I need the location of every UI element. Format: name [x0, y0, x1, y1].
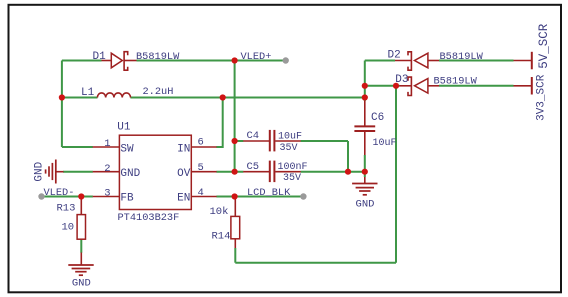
wire right vertical: [395, 86, 397, 263]
ground under R13: [68, 253, 93, 290]
svg-text:R13: R13: [57, 203, 76, 215]
wire D1 anode left segment: [62, 60, 102, 62]
port 3V3_SCR: [514, 74, 548, 121]
svg-text:B5819LW: B5819LW: [434, 75, 478, 87]
svg-text:D2: D2: [388, 50, 401, 62]
node FB junction: [78, 193, 84, 199]
diode D2: [388, 50, 484, 71]
capacitor C5: [243, 161, 307, 184]
capacitor C4: [243, 130, 302, 154]
svg-text:2: 2: [104, 163, 110, 175]
node VLED+ junction: [232, 57, 238, 63]
svg-text:3: 3: [104, 188, 110, 200]
pin 2 GND: [93, 163, 141, 180]
node LCD_BLK open end: [300, 193, 306, 199]
wire left vertical: [61, 61, 63, 148]
wire D2 row left: [365, 60, 395, 62]
node D3 row right junction: [393, 83, 399, 89]
resistor R14: [210, 197, 240, 249]
svg-text:VLED+: VLED+: [241, 51, 272, 63]
inductor L1: [81, 86, 173, 99]
svg-text:L1: L1: [81, 87, 95, 99]
pin 3 FB: [93, 188, 134, 205]
wire pin6 IN vertical: [216, 98, 222, 148]
svg-text:100nF: 100nF: [278, 162, 308, 173]
wire R13 lower: [80, 239, 82, 253]
svg-text:C4: C4: [247, 130, 260, 142]
svg-text:GND: GND: [120, 168, 140, 180]
node EN junction: [232, 193, 238, 199]
net label LCD_BLK: [247, 187, 291, 199]
port 5V_SCR: [514, 23, 552, 69]
pin 5 OV: [177, 162, 217, 180]
ground left rotated: [33, 160, 63, 184]
diode D1: [93, 51, 181, 70]
wire D3 row left: [365, 85, 400, 87]
svg-text:R14: R14: [212, 231, 231, 243]
svg-text:GND: GND: [356, 199, 375, 211]
node VLED+ open end: [283, 57, 289, 63]
svg-text:2.2uH: 2.2uH: [143, 86, 174, 98]
svg-text:C6: C6: [371, 112, 384, 124]
wire L1 row right: [130, 97, 364, 99]
wire R14 to bottom: [234, 248, 236, 263]
svg-text:SW: SW: [120, 143, 134, 155]
svg-text:GND: GND: [33, 161, 45, 181]
svg-text:EN: EN: [177, 193, 190, 205]
wire pin3 FB VLED-: [42, 196, 93, 198]
wire D3 to 3V3_SCR: [439, 85, 514, 87]
svg-text:5: 5: [198, 162, 204, 174]
wire C4 row: [235, 140, 348, 142]
svg-text:1: 1: [104, 138, 110, 150]
svg-text:10: 10: [62, 222, 75, 234]
svg-text:U1: U1: [117, 121, 131, 133]
svg-text:OV: OV: [177, 168, 191, 180]
wire bottom horizontal: [235, 262, 396, 264]
svg-text:FB: FB: [120, 193, 134, 205]
diode D3: [395, 74, 477, 96]
node C4 junction: [232, 138, 238, 144]
wire VLED+ vertical: [234, 61, 236, 172]
svg-text:IN: IN: [177, 143, 190, 155]
pin 4 EN: [177, 187, 217, 205]
wire C6 vertical: [364, 61, 366, 172]
svg-text:GND: GND: [72, 278, 91, 290]
svg-text:35V: 35V: [283, 173, 301, 184]
node C4C5 junction: [345, 169, 351, 175]
net label VLED+: [241, 51, 272, 63]
node VLED- open end: [38, 193, 44, 199]
svg-text:35V: 35V: [280, 143, 298, 154]
ground under C6: [352, 172, 377, 211]
wire D1 cathode to VLED+: [137, 60, 286, 62]
node D3 row left junction: [362, 83, 368, 89]
svg-text:10uF: 10uF: [373, 138, 397, 149]
wire OV row: [216, 171, 364, 173]
svg-text:B5819LW: B5819LW: [136, 51, 180, 63]
svg-text:B5819LW: B5819LW: [440, 51, 484, 63]
svg-text:VLED-: VLED-: [44, 187, 75, 199]
node C6 GND junction: [362, 169, 368, 175]
svg-text:4: 4: [198, 187, 204, 199]
svg-text:PT4103B23F: PT4103B23F: [118, 212, 180, 224]
wire L1 row left: [62, 97, 98, 99]
pin 1 SW: [93, 138, 134, 155]
node OV junction: [232, 169, 238, 175]
wire pin2 GND: [63, 171, 93, 173]
svg-text:10k: 10k: [210, 206, 229, 218]
svg-text:10uF: 10uF: [278, 132, 302, 143]
svg-text:5V_SCR: 5V_SCR: [537, 23, 551, 69]
net label VLED-: [44, 187, 75, 199]
pin 6 IN: [177, 137, 217, 156]
wire EN row LCD_BLK: [216, 196, 303, 198]
resistor R13: [57, 197, 86, 240]
capacitor C6: [354, 101, 396, 155]
svg-text:D1: D1: [93, 51, 107, 63]
op-amp U1 IC body: [117, 121, 191, 224]
node L1 left junction: [59, 94, 65, 100]
svg-text:3V3_SCR: 3V3_SCR: [535, 74, 547, 121]
wire pin1 SW: [62, 146, 93, 148]
node L1 right junction: [220, 94, 226, 100]
svg-text:C5: C5: [247, 161, 260, 173]
svg-text:LCD_BLK: LCD_BLK: [247, 187, 291, 199]
node L1 row end junction: [362, 94, 368, 100]
wire C4 to C5 vertical: [347, 141, 349, 172]
wire D2 to 5V_SCR: [439, 60, 514, 62]
svg-text:6: 6: [198, 137, 204, 149]
